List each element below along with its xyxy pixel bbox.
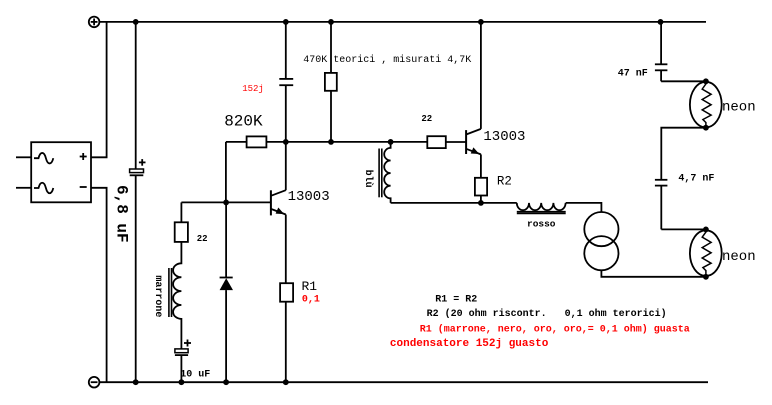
svg-text:10 uF: 10 uF [180, 369, 210, 380]
wire base rail y=141.9 [266, 141, 427, 143]
transformer T1 [584, 212, 618, 270]
top rail wire [99, 21, 706, 23]
svg-text:ù: ù [362, 182, 374, 188]
svg-text:R1 = R2: R1 = R2 [435, 295, 477, 306]
junction neon1 bottom [703, 125, 709, 131]
wire 4,7nF to neon 2 top [661, 228, 706, 230]
neon lamp 2 [690, 229, 722, 276]
svg-text:R2 (20 ohm riscontr. 0,1 ohm: R2 (20 ohm riscontr. 0,1 ohm terorici) [427, 308, 667, 320]
junction bottom rail / R1 [283, 379, 289, 385]
terminal plus (top left output) [89, 17, 100, 28]
resistor 470K [325, 22, 337, 142]
svg-text:47 nF: 47 nF [618, 68, 648, 79]
wire Q2 collector to top rail [480, 22, 482, 129]
transistor Q2 13003 [466, 129, 481, 155]
inductor marrone [169, 242, 182, 336]
svg-text:rosso: rosso [527, 219, 556, 230]
wire transformer bottom to neon 2 [601, 270, 706, 277]
svg-text:470K teorici , misurati 4,7K: 470K teorici , misurati 4,7K [303, 54, 471, 66]
junction neon2 bottom [703, 274, 709, 280]
svg-text:820K: 820K [224, 113, 263, 131]
junction neon1 top [703, 78, 709, 84]
svg-text:R1 (marrone, nero, oro, oro,=: R1 (marrone, nero, oro, oro,= 0,1 ohm) g… [420, 324, 690, 336]
svg-text:13003: 13003 [288, 189, 330, 205]
junction top rail / 152j [283, 19, 289, 25]
resistor 820K [226, 136, 267, 147]
bridge rectifier B1 [31, 142, 91, 202]
wire rosso to transformer [566, 203, 602, 212]
AC input stub wires [16, 156, 31, 158]
terminal minus (bottom left output) [89, 377, 100, 388]
capacitor 4,7 nF [655, 180, 668, 230]
diode D1 [220, 202, 233, 382]
label 6,8 uF (rotated) [113, 185, 131, 243]
wire neon 1 bottom to 4,7nF [661, 128, 706, 180]
wire from rectifier minus output down to bottom rail [91, 188, 107, 382]
wire Q1 base [181, 201, 271, 203]
junction bottom rail / diode [223, 379, 229, 385]
transistor Q1 13003 [271, 190, 286, 215]
junction bottom rail / 10uF [179, 379, 185, 385]
resistor R1 [280, 215, 293, 383]
label blu (rotated) [362, 170, 374, 188]
wire 47nF to neon 1 top [661, 80, 706, 82]
label marrone (rotated) [152, 275, 163, 317]
junction diode / Q1 base [223, 200, 229, 206]
junction top rail / C1 [133, 19, 139, 25]
junction top rail / 47nF [658, 19, 664, 25]
wire from base wire down to resistor 22 [180, 202, 182, 222]
resistor R2 [475, 154, 487, 203]
junction top rail / Q2 collector [478, 19, 484, 25]
inductor rosso [517, 203, 566, 214]
capacitor C2 152j [279, 22, 293, 190]
resistor 22 (horizontal, Q2 base) [427, 136, 466, 148]
junction top rail / 470K [328, 19, 334, 25]
junction blu / base rail [388, 139, 394, 145]
junction neon2 top [703, 227, 709, 233]
svg-text:R2: R2 [497, 174, 512, 188]
svg-text:,: , [113, 195, 131, 205]
wire from top rail down to rectifier plus output [91, 22, 107, 157]
svg-text:4,7 nF: 4,7 nF [678, 174, 714, 185]
svg-text:0,1: 0,1 [302, 295, 320, 306]
resistor 22 (vertical, left) [175, 222, 188, 242]
svg-text:neon: neon [722, 99, 756, 115]
svg-text:neon: neon [722, 249, 756, 265]
svg-text:condensatore 152j guasto: condensatore 152j guasto [390, 338, 549, 350]
svg-text:e: e [152, 311, 163, 317]
capacitor 47 nF [655, 22, 668, 81]
bottom rail wire [99, 381, 708, 383]
junction bottom rail / C1 [133, 379, 139, 385]
svg-text:22: 22 [421, 114, 432, 124]
neon lamp 1 [690, 81, 722, 127]
wire secondary bottom y=202.9 [391, 202, 517, 204]
svg-text:F: F [113, 233, 131, 243]
svg-text:152j: 152j [242, 84, 264, 94]
junction 152j / Q1 collector [283, 139, 289, 145]
junction R2 / secondary [478, 200, 484, 206]
svg-text:8: 8 [113, 204, 131, 214]
svg-text:6: 6 [113, 185, 131, 195]
inductor blu [379, 142, 391, 203]
svg-text:u: u [113, 223, 131, 233]
wire from 820K left down to Q1 base wire [225, 142, 227, 203]
capacitor C1 6,8 uF (electrolytic) [130, 22, 146, 382]
svg-text:R1: R1 [302, 279, 318, 294]
junction 470K / base rail [328, 139, 334, 145]
svg-text:22: 22 [197, 234, 208, 244]
capacitor 10 uF (electrolytic) [175, 336, 191, 382]
svg-text:13003: 13003 [483, 129, 525, 145]
